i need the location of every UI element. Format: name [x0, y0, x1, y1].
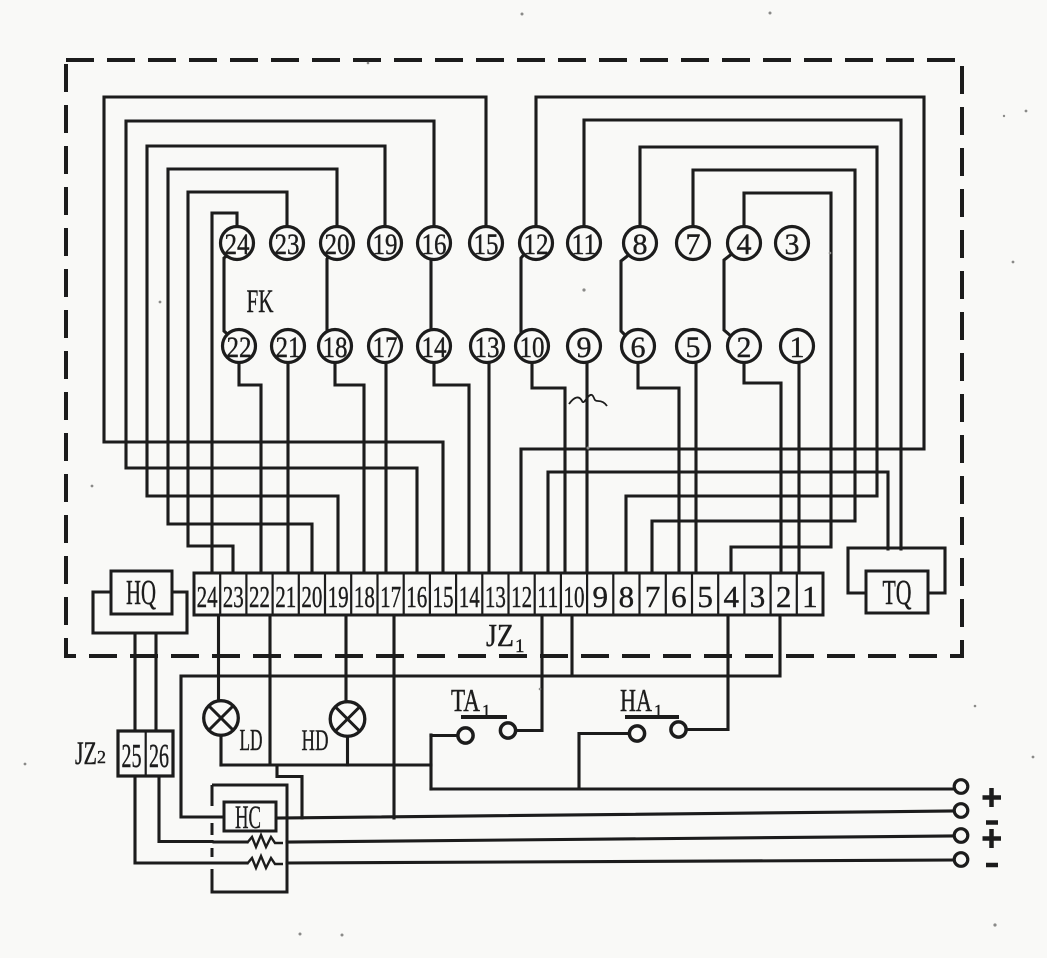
svg-text:FK: FK	[247, 284, 274, 320]
svg-text:13: 13	[475, 331, 500, 364]
svg-text:26: 26	[149, 738, 169, 775]
svg-text:HD: HD	[302, 724, 329, 757]
svg-text:8: 8	[633, 228, 648, 261]
svg-text:JZ: JZ	[75, 736, 97, 772]
svg-text:15: 15	[474, 228, 499, 261]
svg-text:16: 16	[406, 579, 427, 614]
svg-text:1: 1	[790, 331, 805, 364]
svg-text:HQ: HQ	[126, 573, 156, 612]
svg-text:6: 6	[631, 331, 646, 364]
svg-text:TA: TA	[451, 682, 480, 718]
svg-text:10: 10	[564, 579, 585, 614]
svg-text:1: 1	[802, 579, 818, 614]
svg-text:22: 22	[249, 579, 270, 614]
svg-text:20: 20	[301, 579, 322, 614]
svg-text:4: 4	[724, 579, 740, 614]
svg-text:8: 8	[619, 579, 635, 614]
svg-text:5: 5	[697, 579, 713, 614]
svg-text:2: 2	[737, 331, 752, 364]
svg-text:15: 15	[433, 579, 454, 614]
svg-text:18: 18	[354, 579, 375, 614]
svg-text:4: 4	[737, 228, 752, 261]
svg-text:9: 9	[577, 331, 592, 364]
svg-text:25: 25	[122, 738, 142, 775]
svg-text:7: 7	[645, 579, 661, 614]
svg-text:19: 19	[373, 228, 398, 261]
svg-text:12: 12	[511, 579, 532, 614]
svg-text:2: 2	[97, 747, 106, 767]
svg-text:5: 5	[686, 331, 701, 364]
svg-text:23: 23	[275, 228, 300, 261]
svg-text:JZ: JZ	[486, 617, 514, 653]
svg-text:24: 24	[197, 579, 218, 614]
svg-text:14: 14	[459, 579, 480, 614]
svg-text:24: 24	[225, 228, 250, 261]
svg-text:1: 1	[515, 636, 525, 657]
svg-text:19: 19	[328, 579, 349, 614]
svg-text:3: 3	[750, 579, 766, 614]
svg-text:21: 21	[275, 579, 296, 614]
svg-text:2: 2	[776, 579, 792, 614]
svg-text:16: 16	[422, 228, 447, 261]
svg-text:14: 14	[422, 331, 447, 364]
svg-text:TQ: TQ	[883, 573, 912, 612]
svg-text:6: 6	[671, 579, 687, 614]
svg-text:22: 22	[227, 331, 252, 364]
svg-text:23: 23	[223, 579, 244, 614]
svg-text:12: 12	[524, 228, 549, 261]
svg-text:18: 18	[323, 331, 348, 364]
svg-text:HC: HC	[235, 800, 261, 836]
svg-text:20: 20	[325, 228, 350, 261]
svg-text:17: 17	[380, 579, 401, 614]
svg-text:21: 21	[276, 331, 301, 364]
svg-text:9: 9	[592, 579, 608, 614]
svg-text:11: 11	[537, 579, 558, 614]
svg-text:HA: HA	[620, 682, 652, 718]
svg-text:17: 17	[373, 331, 398, 364]
svg-text:3: 3	[785, 228, 800, 261]
svg-text:7: 7	[686, 228, 701, 261]
svg-text:LD: LD	[240, 722, 263, 757]
svg-text:13: 13	[485, 579, 506, 614]
svg-text:11: 11	[572, 228, 597, 261]
svg-text:10: 10	[520, 331, 545, 364]
